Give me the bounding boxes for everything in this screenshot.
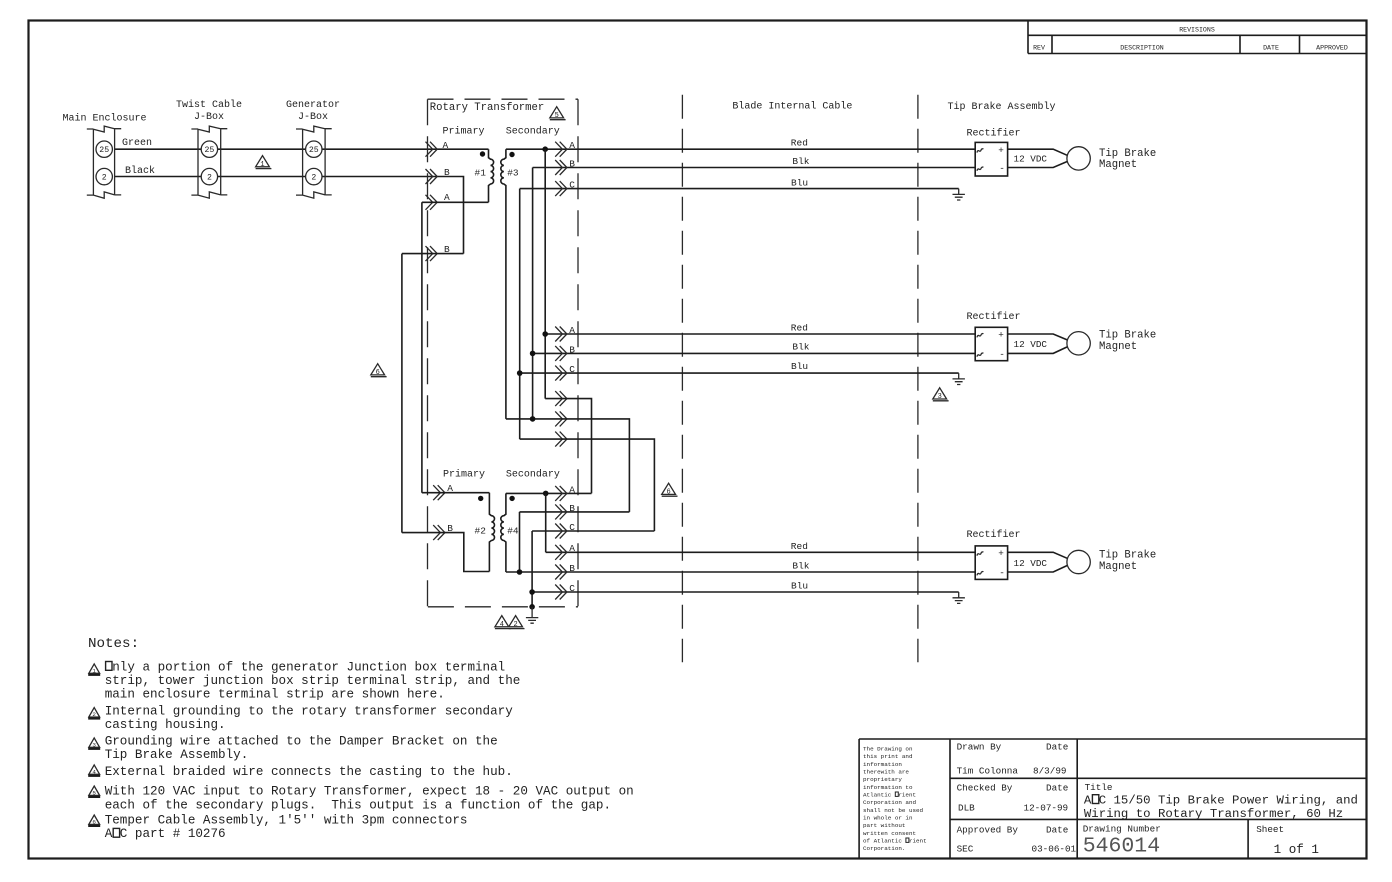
connector pin B primary plug 2 [426, 246, 438, 261]
svg-text:+: + [998, 548, 1004, 559]
wire: primary A into coil 2 [422, 492, 490, 494]
box glyph O title [1092, 795, 1098, 804]
revisions table [1028, 21, 1366, 54]
svg-text:shall not be used: shall not be used [863, 807, 924, 814]
svg-text:C: C [569, 180, 575, 191]
transformer coil #1 primary [489, 149, 494, 202]
svg-text:Date: Date [1046, 825, 1068, 836]
svg-text:this print and: this print and [863, 753, 913, 760]
note flag triangle 3 (notes) [88, 738, 100, 749]
note flag triangle 6 [662, 483, 678, 496]
note flag triangle 3 [933, 388, 949, 401]
note 1 text [105, 660, 521, 701]
connector pin 4 secondary cross-link [555, 391, 567, 406]
svg-text:#3: #3 [507, 168, 519, 179]
svg-text:B: B [444, 167, 450, 178]
svg-text:Rotary Transformer: Rotary Transformer [430, 102, 544, 114]
svg-text:each of the secondary plugs.: each of the secondary plugs. This output… [105, 798, 611, 812]
ground blade3 [953, 592, 965, 603]
svg-text:casting housing.: casting housing. [105, 718, 226, 732]
svg-text:Magnet: Magnet [1099, 159, 1137, 171]
svg-text:25: 25 [204, 146, 214, 155]
wire Green: main enclosure 25 to rotary transformer primary A [115, 148, 489, 150]
svg-text:Drawing Number: Drawing Number [1083, 824, 1161, 835]
svg-text:12 VDC: 12 VDC [1014, 558, 1048, 569]
svg-text:Blade Internal Cable: Blade Internal Cable [732, 101, 852, 113]
wire: primary B loop to coil 2 bottom [402, 533, 490, 572]
svg-text:A: A [569, 325, 575, 336]
wire: coil 1 bottom through pin A2 [422, 201, 489, 203]
svg-text:Tim Colonna: Tim Colonna [957, 766, 1019, 777]
drawn by cell [957, 742, 1069, 777]
note 2 text [105, 704, 514, 732]
junction dot secondary A [542, 146, 548, 152]
svg-text:A: A [569, 140, 575, 151]
wire: secondary A blade2 (Red) [545, 333, 975, 335]
note flag triangle 4 [495, 616, 511, 629]
svg-text:Atlantic rient: Atlantic rient [863, 792, 916, 799]
svg-text:Corporation and: Corporation and [863, 799, 916, 806]
note flag triangle 5 [550, 107, 566, 120]
svg-text:Blk: Blk [792, 342, 809, 353]
wire: lower secondary A row [506, 492, 592, 494]
wire: cross-link pin5 row to lower secondary B [506, 419, 630, 512]
connector pin A secondary blade3 [555, 545, 567, 560]
wire: lower secondary A link down [545, 493, 547, 552]
junction dot blade3 C [529, 589, 535, 595]
terminal strip: Generator J-Box [296, 126, 332, 198]
connector pin C secondary blade2 [555, 366, 567, 381]
connector pin A secondary blade2 [555, 327, 567, 342]
connector pin B secondary blade3 [555, 565, 567, 580]
svg-text:5: 5 [555, 112, 559, 120]
svg-text:J-Box: J-Box [298, 112, 328, 123]
svg-text:in whole or in: in whole or in [863, 815, 913, 822]
wire Black: main enclosure 2 to primary B1, down to B2 row [115, 177, 464, 254]
svg-text:4: 4 [500, 621, 504, 629]
junction dot blade2 B [530, 351, 536, 357]
svg-text:Red: Red [791, 322, 808, 333]
svg-text:A C 15/50 Tip Brake Power Wiri: A C 15/50 Tip Brake Power Wiring, and [1084, 794, 1358, 808]
svg-text:#4: #4 [507, 526, 519, 537]
connector pin B secondary blade1 [555, 160, 567, 175]
wire: secondary A chain down-run [544, 149, 546, 398]
connector pin C secondary blade3 [555, 585, 567, 600]
connector pin A primary plug 2 [426, 195, 438, 210]
svg-text:Blk: Blk [792, 156, 809, 167]
svg-text:B: B [569, 563, 575, 574]
svg-text:2: 2 [311, 174, 316, 183]
connector pin B secondary lower plug [555, 504, 567, 519]
dashed column line: tip brake assembly left [917, 95, 919, 662]
svg-text:Secondary: Secondary [506, 125, 560, 137]
note flag triangle 1 [256, 156, 272, 169]
wire: primary B down-run to lower transformer [401, 254, 403, 533]
connector pin A secondary lower plug [555, 486, 567, 501]
wire: cross-link pin6 row to lower secondary C [520, 439, 655, 531]
svg-text:Main Enclosure: Main Enclosure [62, 113, 146, 125]
wire: rectifier 2 DC output [1008, 334, 1068, 353]
wire: secondary B chain down-run [532, 168, 534, 419]
svg-text:Corporation.: Corporation. [863, 845, 905, 852]
svg-text:Generator: Generator [286, 100, 340, 111]
box glyph O note1 [106, 662, 112, 671]
wire: lower secondary B link down [519, 512, 521, 572]
svg-text:C: C [569, 364, 575, 375]
svg-text:A: A [444, 192, 450, 203]
svg-text:Rectifier: Rectifier [967, 311, 1021, 323]
note flag triangle 1 (notes) [88, 664, 100, 675]
svg-text:12-07-99: 12-07-99 [1024, 803, 1069, 814]
ground blade1 [953, 189, 965, 200]
wire: rectifier 1 DC output [1008, 149, 1068, 167]
svg-text:#1: #1 [475, 168, 487, 179]
svg-text:4: 4 [92, 768, 96, 775]
svg-text:546014: 546014 [1083, 834, 1160, 858]
transformer coil #2 primary [489, 493, 494, 572]
box glyph O proprietary line13 [906, 838, 909, 842]
wire: secondary C blade2 (Blu) to ground [520, 372, 959, 374]
svg-text:Notes:: Notes: [88, 636, 139, 652]
svg-text:Blu: Blu [791, 361, 808, 372]
junction dot blade3 B [517, 569, 523, 575]
svg-text:information: information [863, 761, 902, 768]
svg-text:12 VDC: 12 VDC [1014, 339, 1048, 350]
wire: secondary B blade3 (Blk) [506, 571, 975, 573]
title block grid [859, 739, 1367, 858]
svg-text:proprietary: proprietary [863, 776, 902, 783]
svg-text:information to: information to [863, 784, 913, 791]
svg-text:25: 25 [99, 146, 109, 155]
note flag triangle 2 [509, 616, 525, 629]
svg-text:Sheet: Sheet [1256, 824, 1284, 835]
svg-text:Approved By: Approved By [957, 825, 1019, 836]
svg-text:Tip Brake Assembly: Tip Brake Assembly [947, 101, 1055, 113]
svg-text:therewith are: therewith are [863, 769, 909, 776]
svg-text:25: 25 [309, 146, 319, 155]
junction dot blade2 A [542, 331, 548, 337]
svg-text:8/3/99: 8/3/99 [1033, 766, 1066, 777]
svg-text:Twist Cable: Twist Cable [176, 99, 242, 111]
svg-text:nly a portion of the generator: nly a portion of the generator Junction … [105, 660, 506, 674]
svg-text:Rectifier: Rectifier [967, 529, 1021, 541]
wire: secondary C chain down-run [519, 189, 521, 440]
connector pin C secondary lower plug [555, 524, 567, 539]
svg-text:1: 1 [260, 161, 264, 169]
wire: rectifier 3 DC output [1008, 552, 1068, 572]
junction dot blade2 C [517, 370, 523, 376]
svg-text:The Drawing on: The Drawing on [863, 746, 913, 753]
svg-text:3: 3 [938, 393, 942, 401]
wire: secondary C blade3 (Blu) to ground [532, 591, 959, 593]
svg-text:Red: Red [791, 541, 808, 552]
connector pin A primary plug 1 [426, 142, 438, 157]
svg-text:Checked By: Checked By [957, 783, 1013, 794]
svg-text:part without: part without [863, 822, 905, 829]
svg-text:Wiring to Rotary Transformer,: Wiring to Rotary Transformer, 60 Hz [1084, 807, 1343, 821]
svg-text:Grounding wire attached to the: Grounding wire attached to the Damper Br… [105, 735, 498, 749]
svg-text:Internal grounding to the rota: Internal grounding to the rotary transfo… [105, 704, 514, 718]
tip brake magnet coil 1 [1067, 147, 1090, 170]
wire: lower secondary B row [520, 511, 630, 513]
svg-text:REV: REV [1033, 45, 1045, 52]
wire: secondary B blade2 (Blk) [533, 352, 976, 354]
svg-text:A: A [569, 543, 575, 554]
box glyph O note6 [113, 828, 119, 837]
note 5 text [105, 785, 634, 813]
svg-text:Blk: Blk [792, 560, 809, 571]
svg-text:Red: Red [791, 138, 808, 149]
note flag triangle 4 (notes) [88, 765, 100, 776]
dashed column line: blade internal cable left [681, 95, 683, 662]
connector pin A primary plug 3 [433, 485, 445, 500]
svg-text:5: 5 [92, 789, 96, 796]
svg-text:Magnet: Magnet [1099, 341, 1137, 353]
svg-text:DATE: DATE [1263, 45, 1279, 52]
svg-text:3: 3 [92, 741, 96, 748]
terminal strip: Twist Cable J-Box [191, 126, 227, 198]
tip brake magnet coil 2 [1067, 332, 1090, 355]
svg-text:Tip Brake Assembly.: Tip Brake Assembly. [105, 748, 249, 762]
svg-text:Green: Green [122, 138, 152, 149]
wire: primary A down-run to lower transformer [421, 202, 423, 492]
approved by cell [957, 825, 1077, 855]
rotary transformer dashed enclosure box [428, 99, 579, 607]
svg-text:REVISIONS: REVISIONS [1179, 26, 1215, 33]
junction dot lower secondary A [543, 491, 549, 497]
svg-text:2: 2 [92, 711, 96, 718]
box glyph O proprietary line7 [895, 792, 898, 796]
note flag triangle 6 (primary inter-plug cable) [371, 364, 387, 377]
svg-text:APPROVED: APPROVED [1316, 45, 1348, 52]
wire: secondary A blade1 (Red) [506, 148, 975, 150]
ground blade2 [953, 373, 965, 384]
svg-text:Title: Title [1085, 782, 1113, 793]
svg-text:2: 2 [207, 174, 212, 183]
wire: secondary B blade1 (Blk) [533, 167, 976, 169]
polarity dot coil 1 [480, 151, 485, 156]
wire: lower secondary C link down to ground bus [531, 531, 533, 607]
svg-text:B: B [569, 344, 575, 355]
wire: primary B jumper B1 row to B2 row [402, 253, 464, 255]
transformer coil #4 secondary [501, 493, 506, 572]
svg-text:Rectifier: Rectifier [967, 127, 1021, 139]
wire: secondary A blade3 (Red) [546, 551, 976, 553]
note flag triangle 2 (notes) [88, 708, 100, 719]
polarity dot coil 4 [509, 496, 514, 501]
svg-text:12 VDC: 12 VDC [1014, 154, 1048, 165]
svg-text:+: + [998, 330, 1004, 341]
svg-text:Date: Date [1046, 742, 1068, 753]
svg-text:Magnet: Magnet [1099, 561, 1137, 573]
polarity dot coil 2 [478, 496, 483, 501]
svg-text:DESCRIPTION: DESCRIPTION [1120, 45, 1164, 52]
svg-text:of Atlantic rient: of Atlantic rient [863, 838, 927, 845]
svg-text:Primary: Primary [443, 125, 485, 137]
svg-text:SEC: SEC [957, 844, 974, 855]
junction dot pin5 row [530, 416, 536, 422]
svg-text:6: 6 [376, 369, 380, 377]
svg-text:C: C [569, 522, 575, 533]
svg-text:6: 6 [92, 818, 96, 825]
svg-text:2: 2 [513, 621, 517, 629]
polarity dot coil 3 [509, 152, 514, 157]
svg-text:written consent: written consent [863, 830, 916, 837]
svg-text:Black: Black [125, 165, 155, 177]
connector pin C secondary blade1 [555, 181, 567, 196]
svg-text:-: - [999, 568, 1005, 579]
svg-text:main enclosure terminal strip: main enclosure terminal strip are shown … [105, 688, 445, 702]
svg-text:-: - [999, 349, 1005, 360]
svg-text:03-06-01: 03-06-01 [1032, 844, 1077, 855]
connector pin 5 secondary cross-link [555, 411, 567, 426]
note 3 text [105, 735, 498, 763]
rectifier 3 box [975, 546, 1007, 580]
svg-text:Tip Brake: Tip Brake [1099, 148, 1156, 160]
svg-text:1 of 1: 1 of 1 [1274, 843, 1319, 857]
svg-text:With 120 VAC input to Rotary T: With 120 VAC input to Rotary Transformer… [105, 785, 634, 799]
rectifier 1 box [975, 142, 1007, 176]
tip brake magnet coil 3 [1067, 550, 1090, 573]
svg-text:A: A [443, 140, 449, 151]
svg-text:B: B [569, 503, 575, 514]
note flag triangle 6 (notes) [88, 815, 100, 826]
svg-text:Primary: Primary [443, 469, 485, 481]
wire: cross-link pin4 row to lower secondary A [545, 399, 591, 494]
checked by cell [957, 783, 1069, 814]
ground rotary transformer housing [526, 607, 538, 623]
svg-text:6: 6 [666, 489, 670, 497]
terminal strip: Main Enclosure [87, 126, 121, 198]
svg-text:Secondary: Secondary [506, 469, 560, 481]
svg-text:Blu: Blu [791, 177, 808, 188]
proprietary notice text [863, 746, 927, 853]
rectifier 2 box [975, 327, 1007, 360]
svg-text:DLB: DLB [958, 803, 975, 814]
note flag triangle 5 (notes) [88, 786, 100, 797]
connector pin A secondary blade1 [555, 142, 567, 157]
svg-text:Temper Cable Assembly, 1'5'' w: Temper Cable Assembly, 1'5'' with 3pm co… [105, 814, 468, 828]
transformer coil #3 secondary [501, 149, 506, 419]
svg-text:Tip Brake: Tip Brake [1099, 330, 1156, 342]
svg-text:External braided wire connects: External braided wire connects the casti… [105, 765, 513, 779]
svg-text:B: B [569, 158, 575, 169]
svg-text:Blu: Blu [791, 580, 808, 591]
connector pin B primary plug 1 [426, 169, 438, 184]
svg-text:J-Box: J-Box [194, 112, 224, 123]
connector pin 6 secondary cross-link [555, 432, 567, 447]
connector pin B secondary blade2 [555, 346, 567, 361]
svg-text:Drawn By: Drawn By [957, 742, 1002, 753]
svg-text:strip, tower junction box stri: strip, tower junction box strip terminal… [105, 674, 521, 688]
svg-text:Tip Brake: Tip Brake [1099, 550, 1156, 562]
svg-text:2: 2 [102, 174, 107, 183]
svg-text:-: - [999, 163, 1005, 174]
wire: lower secondary C row [532, 530, 654, 532]
svg-text:A: A [569, 484, 575, 495]
svg-text:C: C [569, 583, 575, 594]
note 6 text [105, 814, 468, 842]
svg-text:Date: Date [1046, 783, 1068, 794]
wire: secondary C blade1 (Blu) to ground [520, 188, 959, 190]
svg-text:1: 1 [92, 667, 96, 674]
svg-text:+: + [998, 145, 1004, 156]
svg-text:A C part # 10276: A C part # 10276 [105, 827, 226, 841]
junction dot transformer housing ground [529, 604, 535, 610]
connector pin B primary plug 3 [433, 525, 445, 540]
svg-text:#2: #2 [475, 526, 487, 537]
